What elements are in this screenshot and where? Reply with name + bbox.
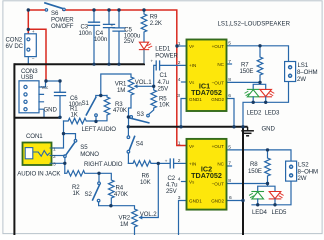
svg-text:100n: 100n [94,36,107,43]
svg-text:GND: GND [262,125,276,132]
svg-text:3: 3 [53,162,56,168]
svg-text:LED2: LED2 [247,109,263,116]
wire: red +V rail from CON2 to S6 [28,9,44,11]
svg-text:S3: S3 [137,111,145,118]
svg-text:S2: S2 [85,191,93,198]
wire: CON1 pin3 to right audio node [52,163,65,173]
LED3 (red) [260,89,274,96]
speaker connector LS1 8-OHM 2W [285,62,296,82]
ground bus: USB/C6 branch (black) [14,117,60,119]
wire: left audio node to S5 top [64,134,76,140]
svg-text:1K: 1K [73,190,80,197]
svg-text:VP: VP [189,144,194,149]
resistor R1 1K [64,118,97,124]
svg-text:25V: 25V [158,85,170,92]
svg-text:4: 4 [178,176,181,182]
wire: IC2 pin6 GND2 to right ground trunk [227,200,244,202]
svg-text:GND1: GND1 [189,199,202,204]
svg-text:6: 6 [229,195,232,201]
wire: IC1 pin1 lead from +V [177,45,187,47]
wire: LED4/LED5 bottoms to speaker return bus [258,199,275,205]
VR2 wiper arrow VOL.2 [138,216,142,220]
svg-text:NC: NC [217,162,224,167]
wire: red branch CON2 to USB Vcc [28,29,46,81]
svg-text:1K: 1K [71,111,78,118]
potentiometer VR1 1M [128,77,134,127]
wire: CON1 pin1 riser to LEFT AUDIO node [52,121,64,148]
svg-text:4: 4 [178,77,181,83]
svg-text:VOL.1: VOL.1 [135,79,152,86]
svg-text:3: 3 [178,195,181,201]
wire: USB data pin stubs [39,94,44,101]
resistor R7 150E [257,46,263,83]
svg-text:LED3: LED3 [265,109,281,116]
VR1 wiper arrow VOL.1 [134,84,154,88]
svg-text:25V: 25V [124,38,136,45]
svg-text:LED1: LED1 [155,45,171,52]
svg-text:−OUT: −OUT [212,80,225,85]
LED5 (red) [269,192,283,199]
svg-text:1: 1 [178,41,181,47]
svg-text:25V: 25V [166,188,178,195]
wire: IC1 pin6 GND2 to ground bus [227,99,235,127]
wire: IC2 pin3 GND1 drop [179,201,187,235]
svg-text:LEFT AUDIO: LEFT AUDIO [82,126,117,133]
wire: node to VR1 top [101,74,131,96]
svg-text:1M: 1M [120,221,128,228]
wire: CON1 pin2 stub [52,155,65,157]
svg-text:+OUT: +OUT [212,144,225,149]
svg-text:GND1: GND1 [189,97,202,102]
LED2 (green) [245,89,259,96]
switch S3 [128,114,149,123]
capacitor C6 100n [55,81,66,117]
wire: ch2 speaker return bus [252,182,291,205]
switch S5 MONO [64,140,77,164]
svg-text:TDA7052: TDA7052 [191,88,222,97]
svg-text:+: + [165,159,168,164]
connector CON1 audio in jack body [23,143,52,166]
svg-text:−: − [32,58,35,63]
svg-text:Vcc: Vcc [42,85,49,90]
switch S1 [86,96,107,122]
IC1 texts [189,44,225,102]
resistor R9 2.2K [141,10,147,42]
wire: red +V rail from S6 to right corner, down to IC2 pin1 [63,10,187,146]
wire: IC1 pin7 NC stub [227,63,232,65]
svg-text:100n: 100n [79,30,92,37]
capacitor C2 4.7u 25V [158,159,186,168]
wire: IC1 pin3 GND1 to ground bus [181,99,187,127]
connector CON3 USB [19,81,39,113]
svg-text:10K: 10K [159,102,170,109]
svg-text:LED5: LED5 [272,209,288,216]
wire: IC1 pin4 stub [182,81,187,83]
resistor R4 470K [99,173,114,205]
wire: VOL.1 node riser to C1 [154,65,156,86]
svg-text:1M: 1M [117,87,125,94]
svg-text:2: 2 [53,154,56,160]
svg-text:2: 2 [178,60,181,66]
svg-text:470K: 470K [114,191,128,198]
svg-text:CON1: CON1 [26,133,43,140]
wire: IC2 pin2 lead done via C2 ; pin4 stub [182,181,187,183]
svg-text:LS1,LS2–LOUDSPEAKER: LS1,LS2–LOUDSPEAKER [218,21,291,28]
svg-text:150E: 150E [240,68,254,75]
IC2 pin numbers [178,140,232,201]
svg-text:7: 7 [228,59,231,65]
resistor R6 10K [128,161,158,167]
connector CON2 6V DC [25,34,37,57]
svg-text:VP: VP [189,44,194,49]
IC U1: op-amp IC1 TDA7052 body [187,40,227,112]
svg-text:RIGHT AUDIO: RIGHT AUDIO [84,161,123,168]
svg-text:TDA7052: TDA7052 [191,171,222,180]
wire: red CON2 plus riser [27,10,29,34]
svg-text:+IN: +IN [189,162,196,167]
svg-text:POWER: POWER [155,53,178,60]
wire: IC2 pin7 NC stub [227,165,232,167]
switch S6 POWER ON/OFF [45,3,65,11]
svg-text:VOL.2: VOL.2 [140,211,157,218]
wire: USB GND pin bracket to ground branch [39,109,44,117]
svg-text:2.2K: 2.2K [150,20,162,27]
wire: LED pair bottoms to speaker return bus [253,97,266,102]
resistor R2 1K [65,171,99,177]
wire: LED4/LED5 top bracket [258,184,275,192]
svg-text:ON/OFF: ON/OFF [51,23,74,30]
svg-text:3: 3 [177,93,180,99]
svg-text:150E: 150E [248,168,262,175]
capacitor C3 100n [89,10,100,64]
svg-text:2W: 2W [297,76,306,83]
svg-text:10K: 10K [140,179,151,186]
svg-text:NC: NC [217,62,224,67]
svg-text:GND: GND [44,106,58,113]
wire: IC1 pin5 +OUT to LS1 [227,46,289,62]
svg-text:1: 1 [178,140,181,146]
ground bus: upper horizontal (black) [14,63,144,66]
capacitor C5 1000u 25V electrolytic [113,10,125,64]
svg-text:−OUT: −OUT [212,182,225,187]
svg-text:8: 8 [228,178,231,184]
IC U2: IC2 TDA7052 body [187,139,227,210]
svg-text:7: 7 [228,161,231,167]
svg-text:S4: S4 [136,141,144,148]
ground bus: left trunk (black) [13,63,15,235]
IC1 pin numbers [177,41,231,100]
LED4 (green) [249,192,263,199]
potentiometer VR2 1M [111,206,137,235]
svg-text:470K: 470K [113,107,127,114]
svg-text:+: + [111,24,114,29]
svg-text:+: + [32,30,35,35]
speaker connector LS2 8-OHM 2W [286,161,297,181]
LED1 POWER (red) [139,42,151,49]
wire: IC2 pin8 -OUT to R8 bottom node [227,183,268,185]
wire: USB Vcc pin bracket to +V node [39,81,46,87]
svg-text:6V DC: 6V DC [6,43,24,50]
svg-text:VS: VS [189,80,194,85]
wire: IC1 pin8 -OUT to R7 bottom node [227,81,261,83]
wire: IC2 pin5 +OUT to LS2 [227,150,292,161]
wire: node Vcc to C6 top [46,80,60,82]
wire: LED1 cathode to ground bus [143,50,145,63]
wire: CON2 minus to ground bus [27,57,29,65]
svg-text:2W: 2W [298,175,307,182]
switch S4 [127,127,135,164]
svg-text:MONO: MONO [80,151,99,158]
svg-text:5: 5 [228,144,231,150]
svg-text:2: 2 [178,158,181,164]
capacitor C4 100n [104,10,115,64]
IC2 texts [189,144,225,204]
switch S2 [93,173,111,205]
wire: LED2/LED3 top bracket [253,82,266,89]
svg-text:GND2: GND2 [211,97,224,102]
svg-text:5: 5 [228,41,231,47]
svg-text:VS: VS [189,180,194,185]
svg-text:GND2: GND2 [211,199,224,204]
svg-text:+: + [150,60,153,65]
svg-text:S1: S1 [82,100,90,107]
resistor R5 10K [149,86,157,114]
svg-text:LED4: LED4 [252,209,268,216]
svg-text:AUDIO IN JACK: AUDIO IN JACK [17,170,60,177]
capacitor C1 4.7u 25V [156,61,186,70]
wire: ch1 speaker return bus [243,82,289,127]
svg-text:1: 1 [53,146,56,152]
ground bus: right trunk (black) [242,127,244,235]
ground symbol GND [241,127,254,136]
svg-text:6: 6 [228,93,231,99]
wire: R6 node riser down to VR2 wiper [142,163,159,217]
svg-text:8: 8 [228,77,231,83]
resistor R3 470K [96,96,110,121]
svg-text:USB: USB [21,74,33,81]
svg-text:+IN: +IN [189,63,196,68]
ground bus: lower horizontal (black) [128,126,247,128]
svg-text:+OUT: +OUT [212,44,225,49]
resistor R8 150E [265,150,271,184]
